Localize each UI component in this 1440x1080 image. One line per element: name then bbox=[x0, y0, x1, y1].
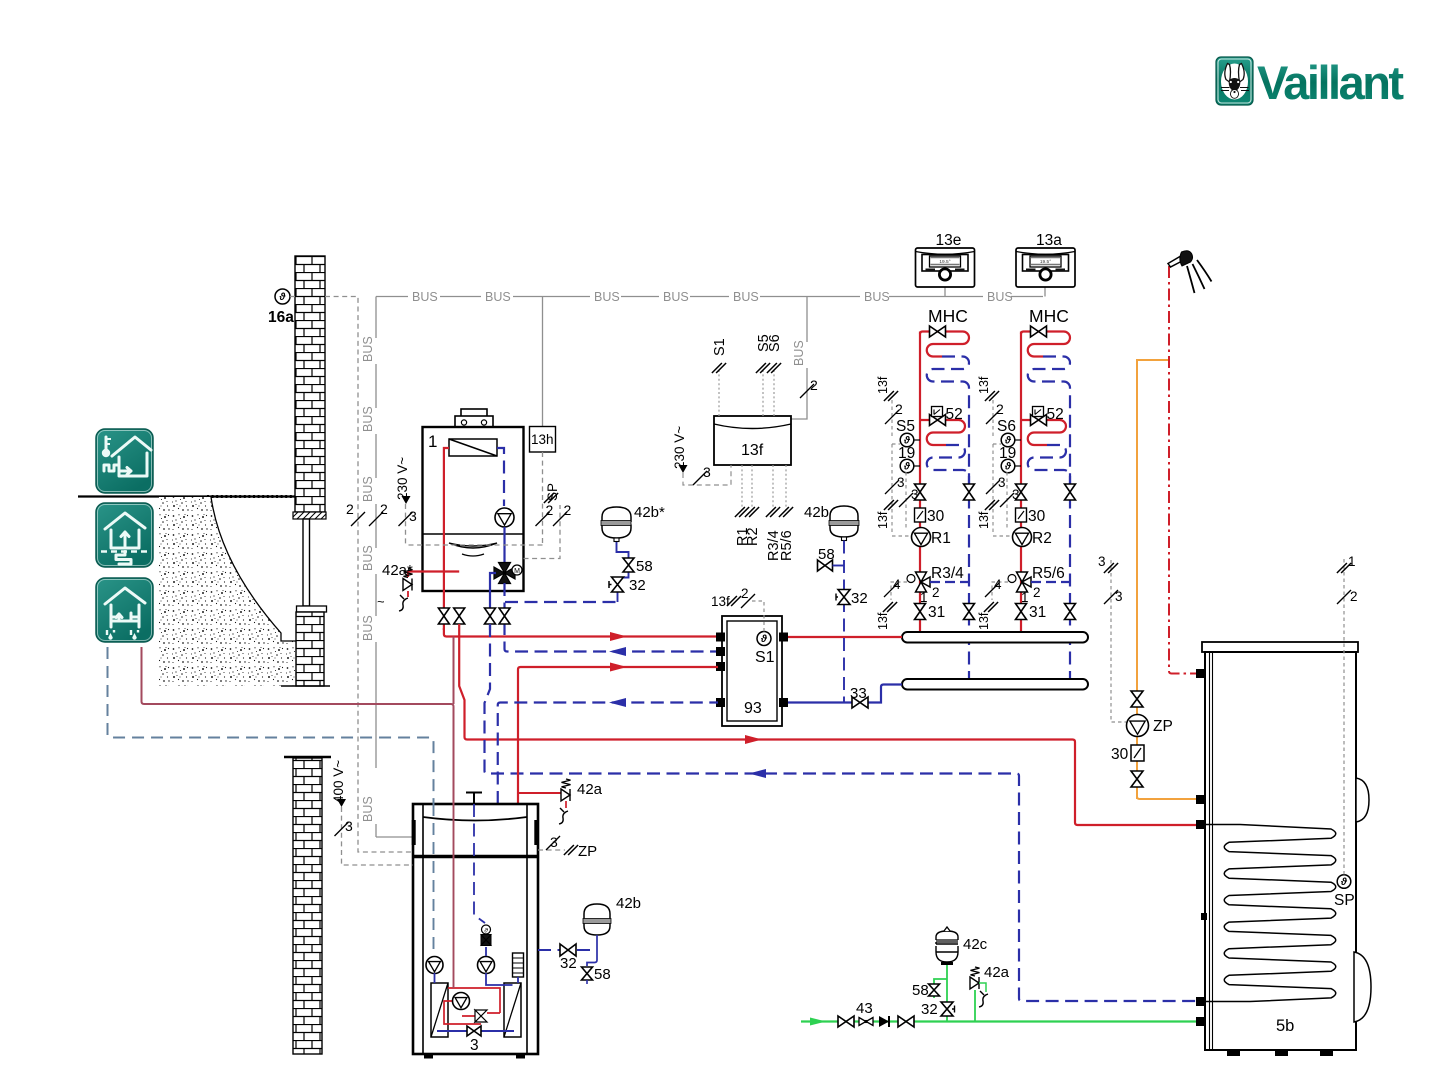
svg-text:32: 32 bbox=[851, 590, 868, 607]
pipe boiler3 supply bbox=[518, 667, 718, 953]
label R5/6 bbox=[779, 530, 795, 561]
svg-text:2: 2 bbox=[1350, 589, 1358, 604]
safety valve 42a* boiler1 bbox=[377, 562, 413, 611]
wire count 16a bbox=[346, 501, 365, 526]
pipe icon heating demand bbox=[108, 647, 434, 804]
svg-text:3: 3 bbox=[470, 1037, 479, 1054]
wire marks S5 bbox=[876, 376, 919, 529]
pipe radiator coil return S6 bbox=[1028, 357, 1070, 485]
svg-text:42b: 42b bbox=[616, 895, 641, 912]
cylinder coil bbox=[1206, 825, 1336, 1002]
svg-text:SP: SP bbox=[1334, 892, 1355, 909]
wire SP cylinder bbox=[1337, 554, 1358, 875]
BUS stub 13e bbox=[944, 285, 946, 297]
wire marks S6 bbox=[977, 376, 1020, 529]
pipe 42b drop bbox=[843, 541, 845, 703]
svg-text:19: 19 bbox=[999, 445, 1016, 462]
svg-text:ϑ: ϑ bbox=[279, 292, 287, 303]
icon house geothermal bbox=[96, 503, 153, 567]
shower head bbox=[1168, 251, 1212, 293]
vaillant logo bbox=[1216, 56, 1404, 109]
svg-text:400 V~: 400 V~ bbox=[331, 760, 346, 803]
svg-text:~: ~ bbox=[377, 594, 385, 609]
svg-text:230 V~: 230 V~ bbox=[395, 457, 410, 500]
svg-text:ϑ: ϑ bbox=[903, 461, 911, 472]
valve boiler1 v3 bbox=[485, 608, 496, 624]
expansion vessel 42b bbox=[804, 504, 859, 541]
svg-text:BUS: BUS bbox=[361, 336, 375, 362]
pipe tank coil supply bbox=[459, 624, 1196, 825]
svg-text:BUS: BUS bbox=[361, 476, 375, 502]
svg-text:13a: 13a bbox=[1036, 232, 1062, 249]
svg-text:1: 1 bbox=[428, 432, 437, 451]
wire R5/6 bbox=[977, 577, 1008, 630]
svg-text:Vaillant: Vaillant bbox=[1257, 56, 1404, 109]
boiler 1 heat exchanger bbox=[449, 439, 497, 456]
svg-text:13e: 13e bbox=[936, 232, 962, 249]
svg-text:58: 58 bbox=[594, 966, 611, 983]
boiler 3 vent bbox=[466, 793, 482, 805]
cylinder 5b body bbox=[1202, 642, 1371, 1056]
svg-text:M: M bbox=[514, 568, 520, 575]
svg-text:2: 2 bbox=[546, 502, 554, 518]
svg-text:3: 3 bbox=[1115, 589, 1123, 604]
sensor 16a bbox=[268, 289, 294, 326]
safety group 42a cw bbox=[970, 964, 1010, 1022]
sensor S1 separator bbox=[711, 586, 775, 666]
svg-text:3: 3 bbox=[550, 834, 558, 850]
valve circuit return bbox=[1065, 484, 1076, 500]
boiler3 inner return pipes bbox=[435, 947, 519, 1031]
valve MHC top bbox=[1031, 326, 1047, 337]
pipe floor coil return S6 bbox=[1028, 445, 1070, 476]
svg-text:BUS: BUS bbox=[663, 290, 689, 304]
svg-text:R5/6: R5/6 bbox=[779, 530, 795, 561]
svg-text:S1: S1 bbox=[755, 649, 775, 666]
remote control 13e bbox=[916, 232, 975, 287]
sensor S6 bbox=[997, 418, 1021, 447]
svg-text:3: 3 bbox=[409, 508, 417, 524]
svg-text:4: 4 bbox=[994, 577, 1002, 592]
svg-text:42a*: 42a* bbox=[382, 562, 413, 579]
return manifold bbox=[902, 679, 1088, 690]
pipe cold water bbox=[801, 1020, 1196, 1022]
boiler 1 label bbox=[428, 432, 437, 451]
pipe return manifold link bbox=[786, 685, 902, 703]
svg-text:2: 2 bbox=[380, 501, 388, 517]
sensor SP bbox=[1334, 875, 1355, 909]
boiler3 inner valve bbox=[467, 1026, 481, 1036]
earth stipple bbox=[159, 497, 296, 686]
svg-text:MHC: MHC bbox=[928, 306, 968, 326]
boiler3 mix valve bbox=[481, 925, 491, 946]
svg-text:BUS: BUS bbox=[412, 290, 438, 304]
3-way valve boiler 1 bbox=[494, 563, 522, 584]
svg-text:S6: S6 bbox=[767, 334, 783, 352]
svg-text:S5: S5 bbox=[896, 418, 915, 435]
svg-text:19.5°: 19.5° bbox=[1040, 259, 1051, 265]
label S1 bbox=[712, 338, 728, 356]
svg-text:ZP: ZP bbox=[1153, 718, 1173, 735]
svg-text:BUS: BUS bbox=[792, 340, 806, 366]
svg-text:58: 58 bbox=[912, 982, 929, 999]
svg-text:32: 32 bbox=[921, 1001, 938, 1018]
flow arrow tank return bbox=[749, 769, 766, 778]
pipe 42c riser bbox=[934, 964, 947, 1022]
diverter valve R5/6 bbox=[1008, 565, 1065, 605]
wall upper brick column bbox=[295, 256, 325, 512]
boiler3 pump left bbox=[426, 957, 443, 974]
valve 32 boiler3 bbox=[560, 944, 577, 972]
safety valve 42a boiler3 bbox=[518, 779, 603, 824]
svg-text:MHC: MHC bbox=[1029, 306, 1069, 326]
svg-text:30: 30 bbox=[927, 508, 945, 525]
pipe supply manifold link bbox=[786, 636, 902, 638]
valve circulation top bbox=[1131, 691, 1143, 707]
expansion vessel 42b* bbox=[601, 504, 665, 542]
pipe radiator coil supply S5 bbox=[920, 332, 969, 357]
label S5 bbox=[756, 334, 772, 352]
svg-text:R3/4: R3/4 bbox=[931, 565, 964, 582]
wire count 13h bbox=[536, 502, 554, 526]
svg-text:3: 3 bbox=[703, 464, 711, 480]
valve 33 bbox=[850, 685, 868, 708]
pipe circuit return drop bbox=[1069, 476, 1071, 679]
cylinder ports bbox=[1196, 669, 1207, 1026]
flow arrow supply separator bbox=[610, 632, 627, 641]
svg-text:32: 32 bbox=[560, 955, 577, 972]
boiler 1 panel split bbox=[423, 534, 524, 556]
valve 58 boiler1 bbox=[623, 558, 653, 575]
svg-text:3: 3 bbox=[1098, 554, 1106, 569]
svg-text:BUS: BUS bbox=[864, 290, 890, 304]
valve 32 cw bbox=[921, 1001, 955, 1018]
pipe radiator coil supply S6 bbox=[1021, 332, 1070, 357]
pump R1 bbox=[912, 528, 951, 548]
pump boiler 1 bbox=[495, 508, 514, 527]
wire 16a to wall bbox=[290, 296, 295, 298]
wall window frame bbox=[303, 519, 310, 606]
svg-text:58: 58 bbox=[636, 558, 653, 575]
valve 58 boiler3 bbox=[582, 966, 611, 984]
svg-text:19: 19 bbox=[898, 445, 915, 462]
sensor 19 bbox=[898, 445, 920, 473]
BUS stub 13a bbox=[1044, 285, 1046, 297]
wire R3/4 bbox=[876, 577, 907, 630]
pipe floor coil supply S6 bbox=[1021, 420, 1066, 445]
svg-text:R2: R2 bbox=[745, 527, 761, 546]
boiler 1 flue bbox=[455, 409, 493, 427]
svg-text:30: 30 bbox=[1028, 508, 1046, 525]
valve circuit return low bbox=[1065, 604, 1076, 620]
wire ZP boiler3 bbox=[538, 834, 597, 860]
expansion vessel 42b boiler3 bbox=[583, 895, 641, 935]
pipe 3way bottom leg bbox=[505, 583, 719, 652]
svg-text:SP: SP bbox=[545, 483, 560, 501]
svg-text:52: 52 bbox=[1047, 406, 1064, 423]
mixing valve 52 bbox=[1031, 406, 1064, 426]
pipe bypass R5/6 bbox=[1031, 581, 1070, 583]
pump ZP bbox=[1127, 715, 1173, 737]
wire BUS 13h lower bbox=[405, 452, 543, 545]
svg-text:2: 2 bbox=[996, 401, 1004, 417]
svg-text:42a: 42a bbox=[577, 781, 603, 798]
pipe pump to 3way bbox=[503, 527, 505, 562]
boiler3 burner circuit bbox=[444, 988, 500, 1024]
svg-text:31: 31 bbox=[1029, 604, 1046, 621]
pipe circuit supply riser low bbox=[1020, 546, 1022, 633]
cylinder label bbox=[1276, 1017, 1294, 1035]
svg-text:58: 58 bbox=[818, 546, 835, 563]
floor boiler 3 body bbox=[412, 804, 539, 1059]
diverter valve R3/4 bbox=[907, 565, 964, 605]
svg-text:16a: 16a bbox=[268, 309, 294, 326]
pipe circuit return drop bbox=[968, 476, 970, 679]
svg-text:2: 2 bbox=[741, 586, 749, 601]
interface 13h bbox=[530, 427, 556, 453]
valve MHC top bbox=[930, 326, 946, 337]
pipe circuit supply riser bbox=[919, 332, 921, 529]
valve cw 2 bbox=[898, 1016, 914, 1027]
pipe radiator coil return S5 bbox=[927, 357, 969, 485]
label R2 bbox=[745, 527, 761, 546]
pipe floor coil supply S5 bbox=[920, 420, 965, 445]
svg-text:42b: 42b bbox=[804, 504, 829, 521]
ground line bbox=[78, 495, 295, 497]
boiler3 hx left bbox=[431, 983, 448, 1037]
valve boiler1 v2 bbox=[454, 608, 465, 624]
wire ZP control bbox=[1098, 554, 1126, 722]
remote control 13a bbox=[1016, 232, 1075, 287]
svg-text:230 V~: 230 V~ bbox=[672, 426, 687, 469]
svg-text:BUS: BUS bbox=[361, 406, 375, 432]
supply manifold bbox=[902, 632, 1088, 643]
pipe 3way left leg bbox=[490, 573, 496, 630]
svg-text:31: 31 bbox=[928, 604, 945, 621]
svg-text:2: 2 bbox=[932, 585, 940, 600]
boiler3 hx right bbox=[504, 983, 521, 1037]
pipe floor coil return S5 bbox=[927, 445, 969, 476]
svg-text:BUS: BUS bbox=[733, 290, 759, 304]
pipe boiler1 supply to separator bbox=[444, 628, 718, 637]
wires 13f terminals bbox=[719, 370, 786, 510]
boiler 1 body bbox=[423, 427, 524, 591]
svg-text:33: 33 bbox=[850, 685, 867, 702]
svg-text:BUS: BUS bbox=[594, 290, 620, 304]
svg-text:42c: 42c bbox=[963, 936, 988, 953]
svg-text:BUS: BUS bbox=[361, 615, 375, 641]
power 230V boiler1 bbox=[395, 457, 417, 545]
svg-text:5b: 5b bbox=[1276, 1017, 1294, 1035]
svg-text:43: 43 bbox=[856, 1000, 873, 1017]
pipe vent drop bbox=[474, 804, 485, 923]
BUS riser to floor boiler bbox=[361, 297, 413, 838]
svg-text:BUS: BUS bbox=[485, 290, 511, 304]
BUS drop to 13h bbox=[542, 297, 544, 427]
pipe 42b* connection bbox=[617, 541, 629, 602]
valve boiler1 v1 bbox=[438, 608, 449, 624]
label R3/4 bbox=[766, 530, 782, 561]
separator 93 bbox=[716, 616, 788, 726]
wall mid brick segment bbox=[281, 612, 330, 686]
regulating valve 30 bbox=[1016, 508, 1046, 525]
pipe boiler1 supply bbox=[408, 448, 459, 630]
svg-text:ϑ: ϑ bbox=[760, 634, 768, 645]
valve circuit supply bbox=[1016, 484, 1027, 500]
pipe circuit supply riser low bbox=[919, 546, 921, 633]
svg-text:ϑ: ϑ bbox=[484, 928, 488, 935]
boiler 3 label bbox=[470, 1037, 479, 1054]
boiler3 burner valve bbox=[475, 1010, 487, 1022]
flow arrow tank supply bbox=[745, 735, 762, 744]
label R1 bbox=[735, 527, 751, 546]
svg-text:ZP: ZP bbox=[578, 843, 597, 860]
svg-text:2: 2 bbox=[895, 401, 903, 417]
svg-text:13f: 13f bbox=[876, 376, 890, 394]
wire 16a outdoor sensor bbox=[325, 297, 413, 853]
valve cw 1 bbox=[838, 1016, 854, 1027]
check valve cw bbox=[879, 1016, 889, 1027]
pipe hot water dhw bbox=[1169, 266, 1196, 674]
pipe icon dhw inside boiler bbox=[453, 804, 455, 988]
svg-text:32: 32 bbox=[629, 577, 646, 594]
regulating valve 30 ZP bbox=[1111, 745, 1144, 763]
svg-text:13f: 13f bbox=[876, 511, 890, 529]
valve 43 meter bbox=[856, 1000, 873, 1026]
flow arrow boiler3 supply bbox=[610, 663, 627, 672]
valve 31 bbox=[1016, 604, 1047, 622]
svg-text:ϑ: ϑ bbox=[1340, 877, 1348, 888]
terminal marks 13f bbox=[712, 363, 793, 517]
svg-text:3: 3 bbox=[998, 475, 1006, 490]
svg-text:BUS: BUS bbox=[361, 545, 375, 571]
valve circuit return low bbox=[964, 604, 975, 620]
svg-text:S6: S6 bbox=[997, 418, 1016, 435]
valve 58 42b bbox=[818, 546, 845, 571]
svg-text:1: 1 bbox=[1348, 554, 1356, 569]
BUS trunk line bbox=[376, 290, 1043, 304]
svg-text:R2: R2 bbox=[1032, 530, 1052, 547]
svg-text:19.5°: 19.5° bbox=[939, 259, 950, 265]
svg-text:3: 3 bbox=[345, 818, 353, 834]
svg-text:42a: 42a bbox=[984, 964, 1010, 981]
svg-text:93: 93 bbox=[744, 700, 762, 717]
expansion vessel 42c bbox=[936, 927, 988, 965]
valve circuit return bbox=[964, 484, 975, 500]
svg-text:13f: 13f bbox=[977, 612, 991, 630]
label S6 bbox=[767, 334, 783, 352]
svg-text:13f: 13f bbox=[977, 511, 991, 529]
sensor S5 bbox=[896, 418, 920, 447]
svg-text:3: 3 bbox=[897, 475, 905, 490]
svg-text:13h: 13h bbox=[531, 432, 554, 447]
sensor 19 bbox=[999, 445, 1021, 473]
pipe icon dhw demand bbox=[142, 647, 454, 804]
wall floor slab hatch bbox=[293, 512, 326, 519]
svg-text:4: 4 bbox=[893, 577, 901, 592]
icon house dhw bbox=[96, 578, 153, 642]
label MHC bbox=[928, 306, 968, 326]
label MHC bbox=[1029, 306, 1069, 326]
icon house heating bbox=[96, 429, 153, 493]
valve 31 bbox=[915, 604, 946, 622]
flow arrow boiler3 return bbox=[609, 698, 626, 707]
svg-text:52: 52 bbox=[946, 406, 963, 423]
svg-text:2: 2 bbox=[564, 502, 572, 518]
chimney cap bbox=[284, 756, 331, 758]
pipe 42b boiler3 bbox=[538, 935, 597, 966]
svg-text:R5/6: R5/6 bbox=[1032, 565, 1065, 582]
pump R2 bbox=[1013, 528, 1052, 548]
svg-text:R1: R1 bbox=[931, 530, 951, 547]
boiler3 pump mid bbox=[478, 957, 495, 974]
pipe boiler1 hx return bbox=[497, 448, 504, 506]
pipe icon heating inside boiler bbox=[433, 804, 435, 956]
svg-text:13f: 13f bbox=[876, 612, 890, 630]
wire SP boiler1 bbox=[524, 483, 572, 559]
pipe icon dhw demand riser bbox=[453, 637, 455, 705]
wiring centre 13f bbox=[714, 416, 791, 465]
power 400V boiler3 bbox=[331, 760, 413, 865]
chimney brick column bbox=[293, 758, 322, 1054]
flow arrow return boiler1 bbox=[609, 647, 626, 656]
svg-text:30: 30 bbox=[1111, 746, 1129, 763]
wire sensors S6 bbox=[993, 400, 1013, 536]
mixing valve 52 bbox=[930, 406, 963, 426]
valve boiler1 v4 bbox=[499, 608, 510, 624]
regulating valve 30 bbox=[915, 508, 945, 525]
pipe expansion branch boiler1 bbox=[505, 601, 618, 603]
flow arrow cold water bbox=[810, 1018, 826, 1026]
wall lower ledge bbox=[297, 606, 327, 612]
svg-text:BUS: BUS bbox=[361, 796, 375, 822]
pipe boiler3 return bbox=[498, 703, 718, 805]
svg-text:13f: 13f bbox=[741, 442, 764, 459]
pipe tank coil return bbox=[485, 624, 1197, 1001]
boiler3 burner pump bbox=[453, 993, 470, 1010]
BUS drop to 13f bbox=[791, 297, 818, 420]
svg-text:42b*: 42b* bbox=[634, 504, 665, 521]
svg-text:2: 2 bbox=[346, 501, 354, 517]
pipe circulation bbox=[1137, 360, 1196, 799]
svg-text:13f: 13f bbox=[977, 376, 991, 394]
svg-text:2: 2 bbox=[810, 377, 818, 393]
svg-text:13f: 13f bbox=[711, 594, 730, 609]
pipe bypass R3/4 bbox=[930, 581, 969, 583]
power 230V 13f bbox=[672, 426, 731, 485]
svg-text:BUS: BUS bbox=[987, 290, 1013, 304]
valve circuit supply bbox=[915, 484, 926, 500]
boiler3 filter bbox=[513, 953, 524, 977]
svg-text:2: 2 bbox=[1033, 585, 1041, 600]
valve 32 42b bbox=[836, 590, 868, 608]
pipe circuit supply riser bbox=[1020, 332, 1022, 529]
valve circulation bottom bbox=[1131, 771, 1143, 787]
svg-text:S1: S1 bbox=[712, 338, 728, 356]
valve 58 cw bbox=[912, 982, 940, 999]
svg-text:ϑ: ϑ bbox=[1004, 461, 1012, 472]
valve 32 boiler1 bbox=[609, 577, 646, 594]
wire sensors S5 bbox=[892, 400, 912, 536]
wire count BUS bbox=[369, 501, 388, 526]
